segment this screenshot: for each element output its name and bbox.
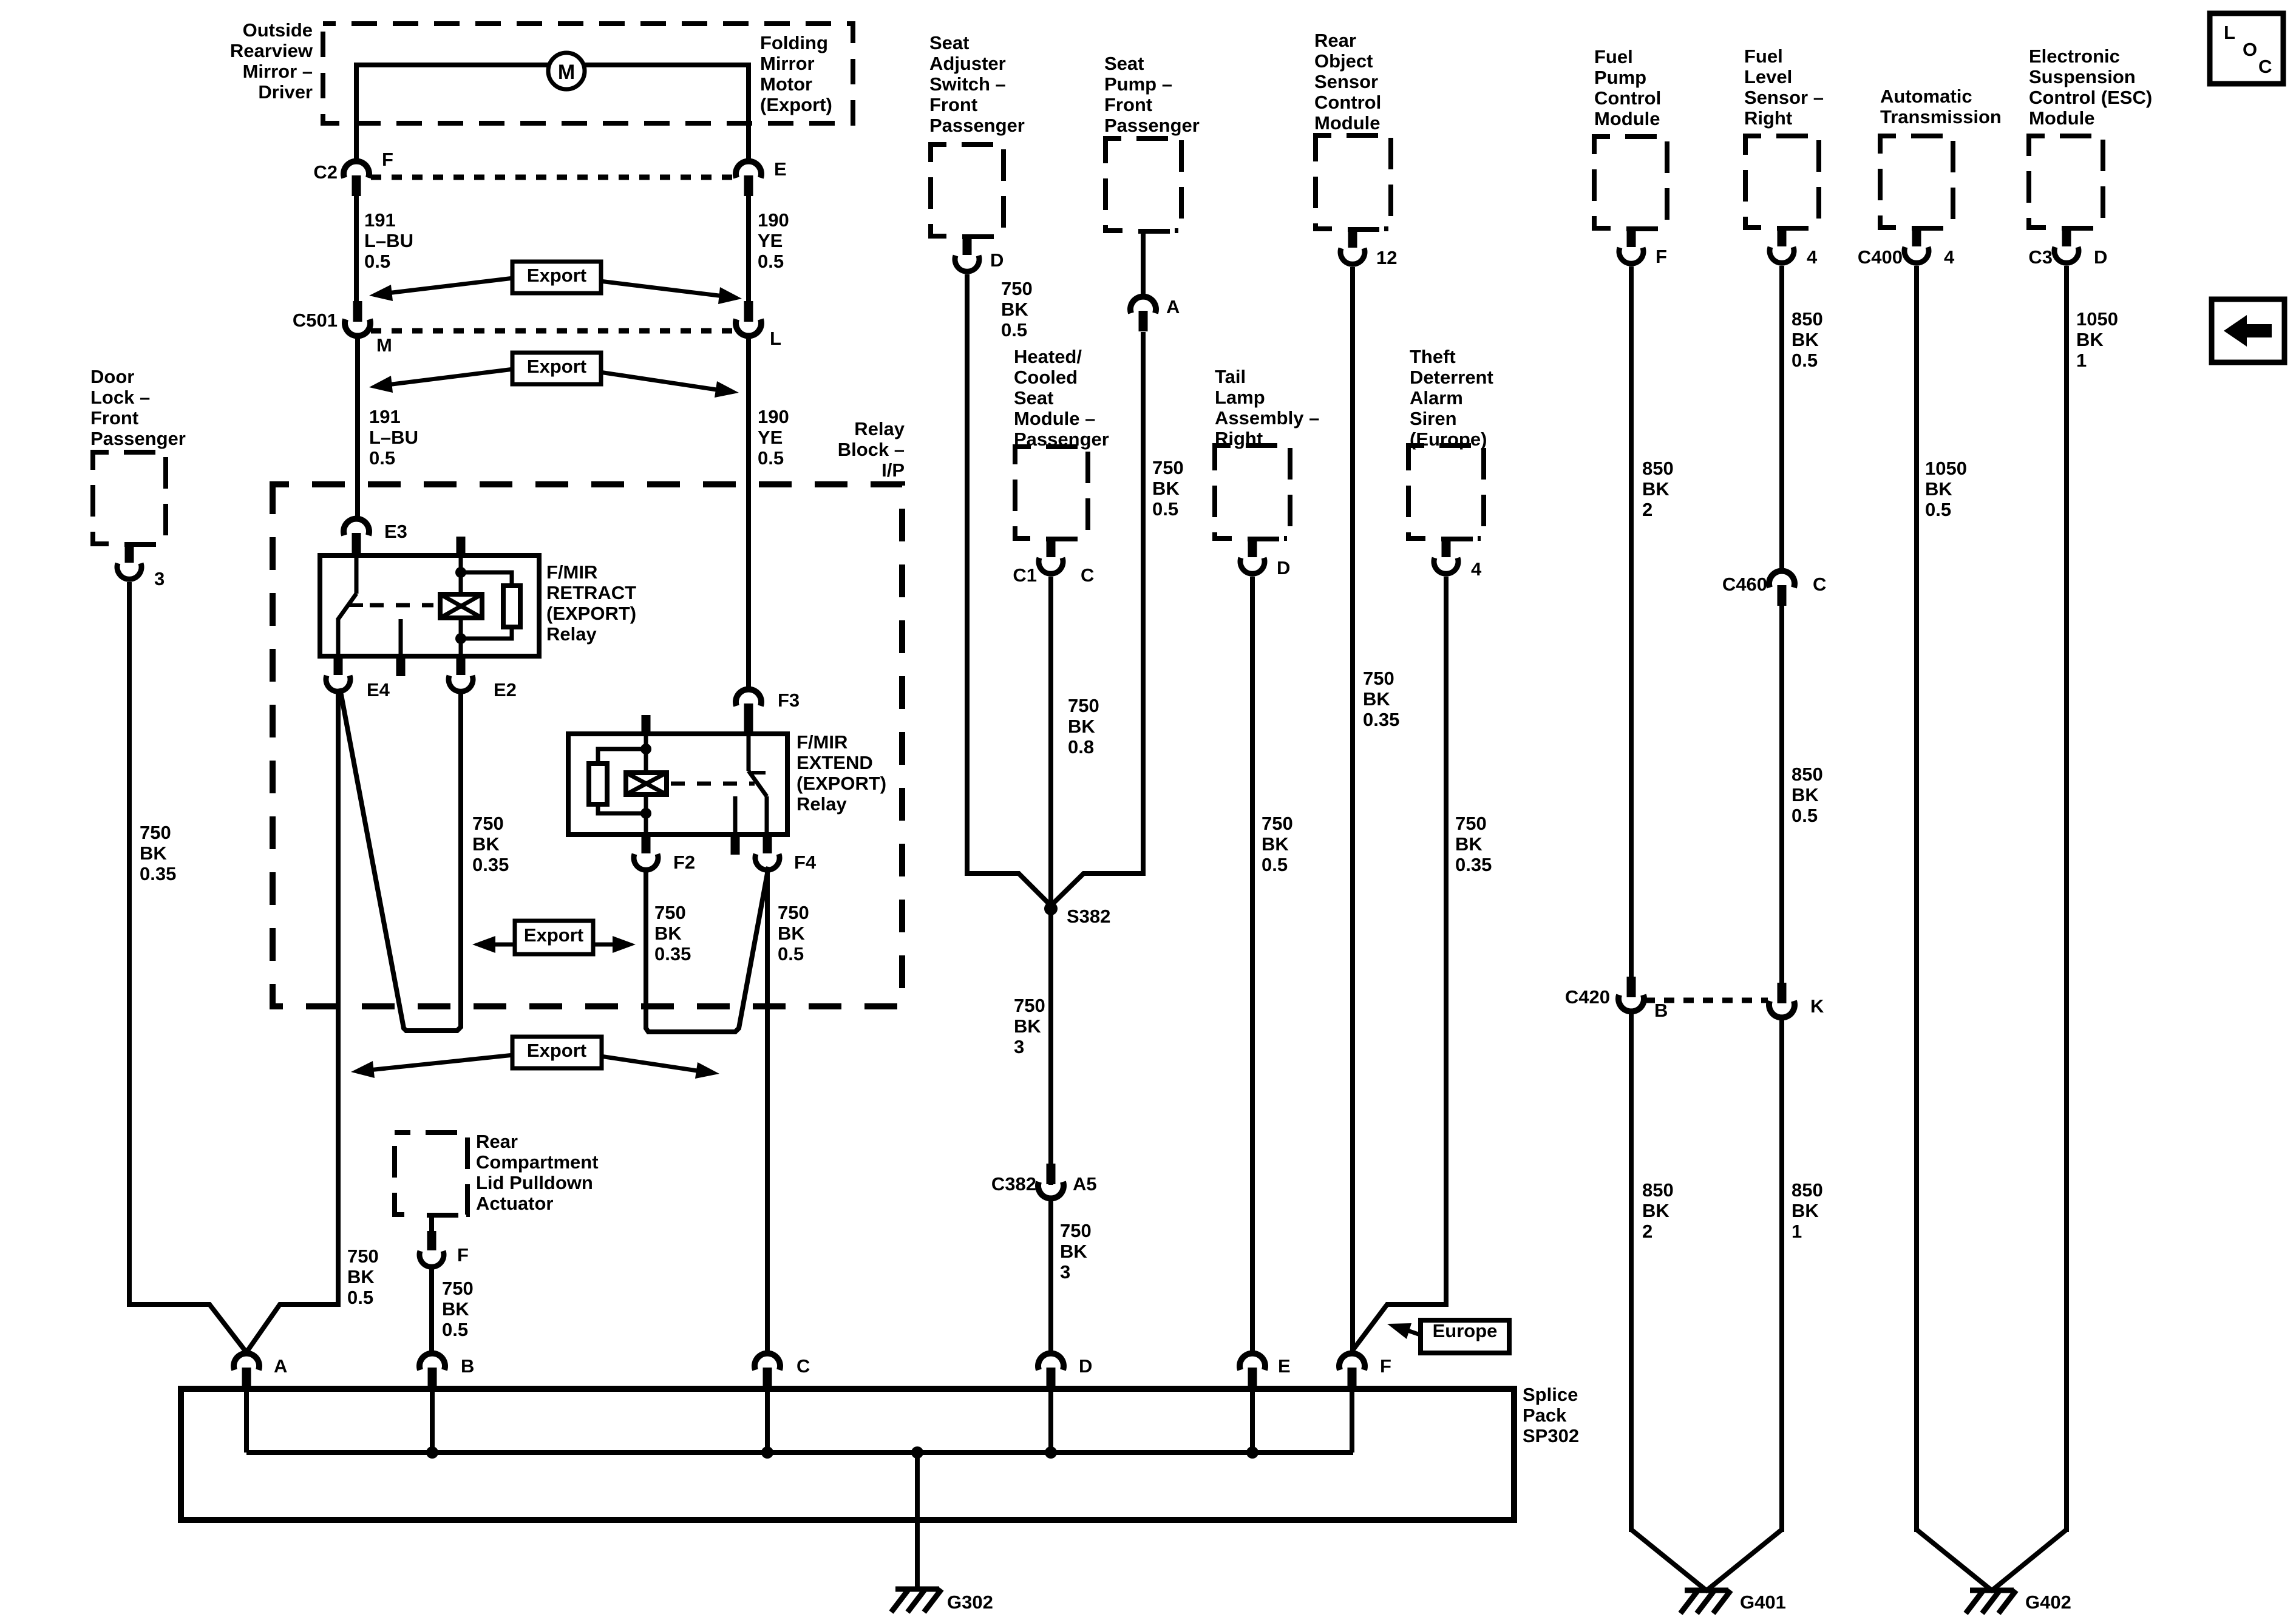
connector B (cap) [419, 1354, 445, 1388]
svg-text:Cooled: Cooled [1014, 367, 1078, 388]
svg-text:F: F [1380, 1355, 1391, 1377]
wire siren elbow into splice F [1352, 1304, 1446, 1351]
connector K (cup) [1769, 983, 1795, 1017]
Export callout 1 box [512, 262, 601, 293]
junction dot relay K1 lower [455, 633, 466, 644]
component label: Fuel Level Sensor - Right [1744, 46, 1824, 129]
wire 850 BK 2 lower [1629, 1011, 1634, 1532]
svg-text:750: 750 [1001, 278, 1033, 299]
svg-text:BK: BK [1363, 688, 1390, 710]
svg-text:Sensor: Sensor [1314, 71, 1378, 92]
label C (heated seat) [1081, 564, 1094, 586]
relay K2 switch [749, 734, 767, 835]
svg-text:Passenger: Passenger [929, 115, 1025, 136]
svg-text:Suspension: Suspension [2029, 66, 2136, 87]
connector C2 pin F (cap) [344, 161, 369, 196]
connector boundary dotted line C501 row [371, 328, 735, 334]
Export callout 1 left arrow [369, 278, 514, 301]
svg-text:BK: BK [1001, 299, 1028, 320]
svg-text:C: C [796, 1355, 810, 1377]
svg-text:0.5: 0.5 [758, 447, 784, 469]
wire F4 down to splice C [765, 868, 770, 1354]
wire 750 BK 0.5 seat pump [1141, 332, 1146, 876]
relay K2 coil (box with X) [626, 773, 667, 795]
svg-text:E3: E3 [384, 521, 407, 542]
svg-text:Pack: Pack [1523, 1405, 1567, 1426]
svg-text:750: 750 [1262, 813, 1293, 834]
svg-text:0.5: 0.5 [1152, 498, 1178, 520]
svg-text:3: 3 [1014, 1036, 1024, 1057]
svg-text:750: 750 [1363, 668, 1394, 689]
wire 750 BK 0.35 rear object sensor to splice F [1350, 267, 1355, 1354]
label 12 [1376, 247, 1397, 268]
svg-text:Alarm: Alarm [1410, 387, 1463, 408]
svg-text:D: D [990, 249, 1004, 271]
label C400 [1858, 246, 1903, 268]
svg-text:Lid Pulldown: Lid Pulldown [476, 1172, 593, 1193]
svg-text:C1: C1 [1013, 564, 1037, 586]
svg-text:0.5: 0.5 [1792, 805, 1818, 826]
ground G302 [891, 1589, 942, 1612]
svg-text:850: 850 [1792, 764, 1823, 785]
svg-text:BK: BK [1455, 833, 1483, 855]
component box: Rear Compartment Lid Pulldown Actuator (dashed) [395, 1133, 467, 1215]
svg-text:Control: Control [1594, 87, 1661, 109]
svg-text:BK: BK [1792, 1200, 1819, 1221]
label G302 [947, 1592, 993, 1613]
svg-text:B: B [461, 1355, 474, 1377]
svg-text:0.5: 0.5 [758, 251, 784, 272]
label E (splice) [1278, 1355, 1291, 1377]
connector C400 pin 4 [1896, 223, 1948, 263]
svg-text:Mirror –: Mirror – [243, 61, 313, 82]
svg-text:C501: C501 [293, 310, 338, 331]
svg-text:BK: BK [1060, 1241, 1087, 1262]
Export callout 2 box [512, 353, 601, 384]
wire label 750 BK 3 (below C382) [1060, 1220, 1092, 1283]
svg-text:Actuator: Actuator [476, 1193, 553, 1214]
wire D drop [1048, 1368, 1053, 1453]
svg-text:850: 850 [1792, 308, 1823, 330]
relay K2 pin F4 stub [763, 835, 772, 853]
Export callout 4 left arrow [351, 1055, 514, 1078]
svg-text:G402: G402 [2025, 1592, 2071, 1613]
wire label 750 BK 0.5 (seat pump) [1152, 457, 1184, 520]
junction dot B [426, 1446, 438, 1459]
svg-text:BK: BK [1792, 784, 1819, 805]
label F (actuator) [457, 1244, 469, 1266]
wire E drop [1250, 1368, 1255, 1453]
label C2 [313, 161, 338, 183]
connector E3 (cap) [344, 519, 369, 555]
label K [1810, 995, 1824, 1017]
svg-text:YE: YE [758, 427, 783, 448]
Export callout 2 left arrow [369, 369, 514, 393]
svg-text:Automatic: Automatic [1880, 86, 1972, 107]
connector L (cup) [736, 301, 761, 336]
component label: Seat Adjuster Switch - Front Passenger [929, 32, 1025, 136]
wire E4-E2 jumper [340, 688, 461, 1031]
svg-text:BK: BK [442, 1298, 469, 1320]
connector E2 (cup) [449, 676, 473, 691]
connector E (cap) [736, 161, 761, 196]
svg-text:Passenger: Passenger [1104, 115, 1200, 136]
label B [461, 1355, 474, 1377]
svg-text:Passenger: Passenger [90, 428, 186, 449]
relay K2 resistor wires [598, 749, 646, 813]
wire 190 YE upper [746, 195, 751, 302]
relay K1 F/MIR RETRACT (EXPORT) box [320, 555, 539, 656]
connector C460 pin C (cap) [1769, 571, 1795, 606]
Export callout 1 right arrow [600, 281, 742, 304]
component label: Tail Lamp Assembly - Right [1215, 366, 1319, 449]
svg-text:850: 850 [1792, 1179, 1823, 1201]
component box: Door Lock (dashed) [93, 452, 166, 544]
svg-text:BK: BK [140, 842, 167, 864]
svg-text:Pump –: Pump – [1104, 73, 1172, 95]
label D (seat adjuster) [990, 249, 1004, 271]
wire C drop [765, 1368, 770, 1453]
component box: Seat Pump (dashed) [1106, 138, 1181, 231]
relay K2 top pin stub [642, 715, 651, 734]
svg-text:Block –: Block – [838, 439, 905, 460]
Europe callout box [1421, 1320, 1509, 1353]
wire label 850 BK 0.5 (upper) [1792, 308, 1823, 371]
wire F drop [1350, 1368, 1354, 1453]
label L [770, 328, 781, 349]
svg-text:0.8: 0.8 [1068, 736, 1094, 758]
component label: Rear Object Sensor Control Module [1314, 30, 1381, 134]
wire G302 drop [915, 1453, 920, 1589]
wire 190 YE lower [746, 336, 751, 688]
svg-text:750: 750 [654, 902, 686, 923]
wire 191 L-BU lower [355, 336, 360, 518]
junction dot relay K2 upper [640, 744, 651, 754]
svg-text:4: 4 [1944, 246, 1955, 268]
svg-text:RETRACT: RETRACT [546, 582, 636, 603]
label F [382, 149, 393, 170]
relay K2 middle pin [733, 796, 738, 855]
svg-text:Module: Module [2029, 107, 2095, 129]
svg-text:Theft: Theft [1410, 346, 1456, 367]
svg-text:L: L [2224, 22, 2235, 43]
component box: Automatic Transmission (dashed) [1880, 136, 1953, 228]
svg-text:Seat: Seat [1104, 53, 1144, 74]
svg-text:750: 750 [1068, 695, 1099, 716]
svg-text:(EXPORT): (EXPORT) [546, 603, 636, 624]
svg-text:D: D [1277, 557, 1290, 578]
Export callout 3 box [515, 921, 593, 954]
svg-text:Module: Module [1594, 108, 1660, 129]
label C382 [991, 1173, 1036, 1195]
wire 1050 BK 0.5 [1914, 266, 1919, 1532]
wire label 850 BK 2 (upper) [1642, 458, 1674, 520]
ground G402 [1966, 1590, 2016, 1613]
component label: Automatic Transmission [1880, 86, 2002, 127]
component label: Seat Pump - Front Passenger [1104, 53, 1200, 136]
connector pin D of tail lamp [1232, 534, 1284, 574]
svg-text:Outside: Outside [243, 19, 313, 41]
relay K1 resistor wires [461, 572, 512, 639]
wire 750 BK 0.5 tail lamp to splice E [1250, 577, 1255, 1354]
svg-text:0.5: 0.5 [442, 1319, 468, 1340]
label 4 (C400) [1944, 246, 1955, 268]
svg-text:190: 190 [758, 406, 789, 427]
wire seat pump elbow to S382 [1051, 873, 1143, 906]
connector pin of seat pump [1123, 226, 1175, 297]
svg-text:BK: BK [347, 1266, 375, 1287]
component label: Outside Rearview Mirror - Driver [230, 19, 313, 103]
connector pin F of fuel pump module [1611, 224, 1663, 263]
wire label 190 YE 0.5 (upper) [758, 209, 789, 272]
label C420 [1565, 986, 1610, 1008]
wire 1050 BK 1 [2064, 266, 2069, 1532]
label B (C420) [1654, 1000, 1668, 1021]
relay K2 actuation dashed line [671, 782, 755, 786]
wire label 750 BK 0.5 (tail lamp) [1262, 813, 1293, 875]
label F2 [673, 852, 695, 873]
label A (seat pump) [1166, 296, 1180, 317]
svg-text:0.35: 0.35 [140, 863, 176, 884]
wire 850 BK 0.5 upper [1779, 266, 1784, 571]
label A [274, 1355, 287, 1377]
svg-text:Switch –: Switch – [929, 73, 1006, 95]
label F (fuel pump) [1656, 246, 1667, 267]
svg-text:F: F [457, 1244, 469, 1266]
svg-text:C420: C420 [1565, 986, 1610, 1008]
wire label 1050 BK 0.5 [1925, 458, 1967, 520]
svg-text:BK: BK [1262, 833, 1289, 855]
svg-text:BK: BK [472, 833, 500, 855]
svg-text:Fuel: Fuel [1744, 46, 1783, 67]
relay K2 resistor [589, 764, 607, 804]
svg-text:190: 190 [758, 209, 789, 231]
svg-text:C: C [1813, 574, 1826, 595]
label C (C460) [1813, 574, 1826, 595]
svg-text:E: E [1278, 1355, 1291, 1377]
connector E (cap, splice) [1240, 1354, 1265, 1388]
connector D (cap) [1038, 1354, 1064, 1388]
svg-text:750: 750 [442, 1278, 474, 1299]
wire label 190 YE 0.5 (lower) [758, 406, 789, 469]
svg-text:850: 850 [1642, 458, 1674, 479]
connector A (cap, seat pump) [1130, 297, 1156, 331]
wire 850 BK 2 upper [1629, 266, 1634, 977]
svg-text:Relay: Relay [854, 418, 905, 439]
svg-text:Motor: Motor [760, 73, 812, 95]
svg-text:750: 750 [1152, 457, 1184, 478]
component label: Folding Mirror Motor (Export) [760, 32, 832, 115]
wire ESC into G402 [1991, 1530, 2067, 1592]
wire label 750 BK 0.5 (seat adjuster) [1001, 278, 1033, 341]
svg-text:C460: C460 [1722, 574, 1767, 595]
svg-text:C: C [2258, 56, 2272, 77]
svg-text:1050: 1050 [2076, 308, 2118, 330]
svg-text:12: 12 [1376, 247, 1397, 268]
relay K1 top pin stub [457, 537, 466, 555]
svg-text:A: A [274, 1355, 287, 1377]
svg-text:C400: C400 [1858, 246, 1903, 268]
svg-text:850: 850 [1642, 1179, 1674, 1201]
wire 850 BK 0.5 lower [1779, 605, 1784, 983]
svg-text:BK: BK [1014, 1015, 1041, 1037]
label M [376, 334, 392, 356]
svg-text:191: 191 [364, 209, 396, 231]
wire label 850 BK 2 (lower) [1642, 1179, 1674, 1242]
svg-text:G302: G302 [947, 1592, 993, 1613]
svg-text:Front: Front [929, 94, 977, 115]
label A5 [1073, 1173, 1097, 1195]
svg-text:Fuel: Fuel [1594, 46, 1633, 67]
svg-text:750: 750 [472, 813, 504, 834]
wire A drop [244, 1368, 249, 1453]
connector F (cap, splice) [1339, 1354, 1365, 1388]
relay K1 pin E4 stub [334, 656, 343, 675]
svg-text:(Export): (Export) [760, 94, 832, 115]
relay block dashed border [273, 484, 902, 1006]
label D [1079, 1355, 1092, 1377]
ground G401 [1680, 1590, 1731, 1613]
svg-text:Front: Front [1104, 94, 1152, 115]
junction dot D [1045, 1446, 1057, 1459]
svg-text:Compartment: Compartment [476, 1151, 599, 1173]
junction dot G302 tap [911, 1446, 923, 1459]
svg-text:Heated/: Heated/ [1014, 346, 1082, 367]
wire 750 BK 3 to splice D [1048, 1198, 1053, 1354]
svg-text:Folding: Folding [760, 32, 828, 53]
svg-text:Assembly –: Assembly – [1215, 407, 1319, 429]
label 3 [154, 568, 165, 589]
label D (tail lamp) [1277, 557, 1290, 578]
relay K1 pin E2 stub [457, 656, 466, 675]
connector pin F of actuator [411, 1210, 463, 1267]
svg-text:E4: E4 [367, 679, 390, 700]
label E3 [384, 521, 407, 542]
svg-text:BK: BK [2076, 329, 2104, 350]
wire label 750 BK 0.35 (siren) [1455, 813, 1492, 875]
component box: Heated/Cooled Seat Module (dashed) [1015, 447, 1088, 538]
wire fuel pump into G401 [1631, 1530, 1708, 1592]
svg-text:F/MIR: F/MIR [796, 731, 847, 753]
connector pin D of seat adjuster [946, 232, 999, 271]
wire label 1050 BK 1 [2076, 308, 2118, 371]
wire E4 elbow into splice A [245, 1304, 338, 1355]
wire label 750 BK 0.8 [1068, 695, 1099, 758]
Export callout 3 right arrow [594, 936, 636, 953]
svg-text:0.35: 0.35 [1455, 854, 1492, 875]
svg-text:E: E [774, 158, 787, 180]
svg-text:Export: Export [527, 1040, 586, 1061]
svg-text:4: 4 [1471, 558, 1482, 580]
svg-text:0.5: 0.5 [369, 447, 395, 469]
svg-text:Rear: Rear [476, 1131, 518, 1152]
svg-text:Module –: Module – [1014, 408, 1095, 429]
relay K1 coil feed wire [459, 555, 463, 656]
junction dot relay K2 lower [640, 808, 651, 819]
junction dot C [761, 1446, 773, 1459]
wire seat adjuster elbow to S382 [967, 873, 1051, 906]
label 4 (fuel level) [1807, 246, 1818, 268]
label S382 [1067, 906, 1110, 927]
svg-text:0.5: 0.5 [1925, 499, 1951, 520]
svg-text:750: 750 [1455, 813, 1487, 834]
svg-text:F: F [1656, 246, 1667, 267]
label E4 [367, 679, 390, 700]
label F/MIR RETRACT (EXPORT) Relay [546, 561, 636, 645]
component box: Fuel Level Sensor (dashed) [1745, 136, 1819, 228]
svg-text:F/MIR: F/MIR [546, 561, 597, 583]
relay K1 switch [338, 555, 363, 656]
splice S382 dot [1044, 902, 1058, 915]
svg-text:Mirror: Mirror [760, 53, 815, 74]
connector A (cap) [234, 1354, 259, 1388]
svg-text:3: 3 [154, 568, 165, 589]
svg-text:L: L [770, 328, 781, 349]
label C501 [293, 310, 338, 331]
relay K1 resistor [503, 586, 520, 627]
svg-text:4: 4 [1807, 246, 1818, 268]
relay K1 middle pin [399, 619, 403, 676]
connector C501 pin M (cup) [345, 301, 370, 336]
wire label 850 BK 1 [1792, 1179, 1823, 1242]
svg-text:F: F [382, 149, 393, 170]
Export callout 4 right arrow [600, 1056, 719, 1079]
svg-text:1050: 1050 [1925, 458, 1967, 479]
motor M1 circle [548, 53, 585, 89]
component box: ESC Module (dashed) [2029, 136, 2103, 228]
svg-text:L–BU: L–BU [369, 427, 418, 448]
connector pin 4 of fuel level sensor [1761, 223, 1813, 263]
svg-text:0.5: 0.5 [347, 1287, 373, 1308]
relay K2 F/MIR EXTEND (EXPORT) box [568, 734, 787, 835]
svg-text:191: 191 [369, 406, 401, 427]
svg-text:BK: BK [1642, 478, 1669, 500]
connector C420 pin B (cup) [1618, 977, 1644, 1011]
component box: Seat Adjuster Switch (dashed) [931, 144, 1004, 236]
label Relay Block - I/P [838, 418, 905, 481]
label C3 [2028, 246, 2053, 268]
splice bus wire [246, 1450, 1353, 1455]
svg-text:K: K [1810, 995, 1824, 1017]
connector C3 pin D [2046, 223, 2098, 263]
label G402 [2025, 1592, 2071, 1613]
label 4 (siren) [1471, 558, 1482, 580]
component label: Heated/Cooled Seat Module - Passenger [1014, 346, 1109, 450]
label G401 [1740, 1592, 1786, 1613]
svg-text:0.35: 0.35 [1363, 709, 1399, 730]
svg-text:BK: BK [1068, 716, 1095, 737]
label C460 [1722, 574, 1767, 595]
svg-text:BK: BK [778, 923, 805, 944]
label F4 [794, 852, 817, 873]
wire E4 down to splice A [336, 693, 341, 1307]
Export callout 3 left arrow [472, 936, 514, 953]
svg-text:Module: Module [1314, 112, 1381, 134]
svg-text:F4: F4 [794, 852, 817, 873]
wire 750 BK 0.35 siren [1444, 577, 1449, 1307]
svg-text:BK: BK [654, 923, 682, 944]
svg-text:C3: C3 [2028, 246, 2053, 268]
component box: Fuel Pump Control Module (dashed) [1594, 137, 1667, 228]
wire label 750 BK 0.5 (F4) [778, 902, 809, 964]
svg-text:BK: BK [1152, 478, 1180, 499]
svg-text:Right: Right [1744, 107, 1792, 129]
junction dot E [1246, 1446, 1258, 1459]
label F3 [778, 690, 800, 711]
svg-text:Export: Export [527, 265, 586, 286]
svg-text:Pump: Pump [1594, 67, 1646, 88]
relay K2 coil feed wire [644, 734, 648, 835]
